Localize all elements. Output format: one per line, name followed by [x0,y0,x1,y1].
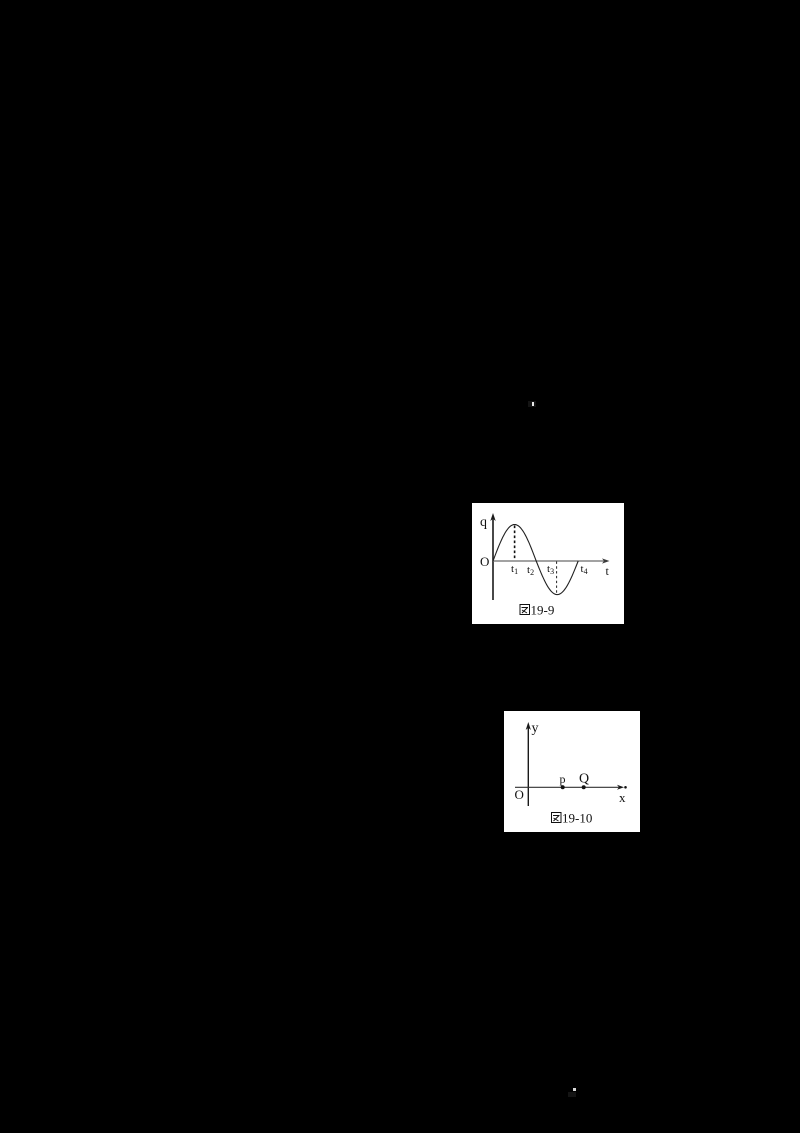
svg-text:y: y [532,721,539,736]
svg-text:t3: t3 [547,563,554,576]
svg-text:O: O [480,554,489,569]
svg-text:19-9: 19-9 [531,603,555,618]
svg-text:p: p [560,772,566,786]
svg-text:t1: t1 [511,563,518,576]
svg-text:t4: t4 [581,563,588,576]
svg-text:19-10: 19-10 [562,811,592,826]
svg-text:Q: Q [579,772,589,787]
svg-text:x: x [619,790,626,805]
svg-text:q: q [480,515,487,530]
svg-text:t2: t2 [527,564,534,577]
svg-text:t: t [606,564,610,578]
svg-text:O: O [515,787,524,802]
